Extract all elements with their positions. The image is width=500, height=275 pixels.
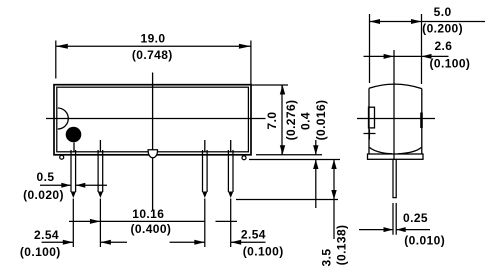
package body front view inner outline: [57, 87, 249, 152]
dimension 2.6 (0.100) pin offset: [364, 39, 471, 71]
pin 3 extension line: [204, 199, 206, 248]
dimension 2.54 (0.100) right: [170, 228, 284, 259]
svg-text:2.6: 2.6: [434, 39, 452, 53]
svg-text:0.4: 0.4: [299, 112, 313, 130]
svg-text:10.16: 10.16: [132, 207, 164, 221]
side view right edge thick segment: [420, 113, 423, 129]
pin 1 extension line: [72, 199, 74, 248]
svg-text:(0.016): (0.016): [314, 100, 328, 141]
side view vertical centerline: [393, 50, 395, 160]
side view pin upper segment: [393, 159, 396, 197]
svg-text:0.25: 0.25: [403, 211, 428, 225]
dimension 10.16 (0.400): [69, 207, 237, 236]
dimension 0.4 (0.016) standoff: [299, 100, 329, 208]
svg-text:(0.138): (0.138): [334, 225, 348, 266]
extension line pin tip level: [236, 199, 338, 201]
side view base plate: [368, 154, 424, 159]
center bottom notch: [148, 150, 157, 158]
svg-text:(0.100): (0.100): [429, 57, 470, 71]
dimension 5.0 (0.200) side width: [370, 5, 486, 84]
extension line body bottom (seating): [256, 154, 322, 156]
side view bottom meniscus curves: [369, 147, 421, 153]
svg-text:(0.010): (0.010): [404, 233, 445, 247]
svg-text:(0.100): (0.100): [243, 244, 284, 258]
side view pin lower segment: [393, 203, 396, 235]
standoff bump left: [60, 155, 64, 159]
dimension 2.54 (0.100) left: [20, 228, 127, 259]
pin 3 stub inside body: [204, 140, 206, 152]
svg-text:19.0: 19.0: [141, 31, 166, 45]
standoff bump right: [242, 156, 246, 160]
pin 4 extension line: [230, 199, 232, 248]
pin 2 stub inside body: [99, 140, 101, 152]
side view horizontal centerline: [357, 118, 435, 120]
pin 1 indicator dot: [66, 127, 82, 143]
pin 2 extension line: [99, 199, 101, 248]
svg-text:7.0: 7.0: [265, 112, 279, 130]
svg-text:2.54: 2.54: [34, 228, 59, 242]
svg-text:5.0: 5.0: [434, 5, 452, 19]
dimension 3.5 (0.138) pin length: [320, 160, 349, 267]
svg-text:(0.276): (0.276): [284, 100, 298, 141]
dimension 7.0 (0.276) height: [265, 85, 298, 155]
dimension 0.25 (0.010) pin thickness: [359, 211, 445, 247]
svg-text:(0.200): (0.200): [422, 22, 463, 36]
svg-text:(0.100): (0.100): [20, 245, 61, 259]
svg-text:(0.020): (0.020): [23, 188, 64, 202]
vertical centerline (front view): [152, 73, 154, 211]
pin 1 (front view): [71, 150, 76, 198]
dimension 0.5 (0.020) pin width: [23, 170, 107, 202]
pin 4 (front view): [228, 150, 233, 198]
extension line body top right: [251, 84, 288, 86]
pin 2 (front view): [98, 150, 103, 198]
orientation notch semicircle: [58, 108, 69, 129]
side view body: [369, 84, 422, 154]
side view cross tick mark: [364, 130, 376, 140]
pin 3 (front view): [202, 150, 207, 198]
side view left terminal tab: [369, 107, 375, 128]
horizontal centerline (front view): [46, 118, 266, 120]
svg-text:3.5: 3.5: [320, 249, 334, 267]
svg-text:(0.400): (0.400): [130, 222, 171, 236]
pin 4 stub inside body: [230, 140, 232, 152]
dimension 19.0 (0.748): [56, 31, 251, 84]
package body front view outer outline: [54, 85, 251, 155]
pin 1 stub inside body: [73, 143, 75, 153]
extension line standoff: [249, 159, 340, 161]
svg-text:2.54: 2.54: [241, 228, 266, 242]
svg-text:0.5: 0.5: [37, 170, 55, 184]
svg-text:(0.748): (0.748): [132, 48, 173, 62]
